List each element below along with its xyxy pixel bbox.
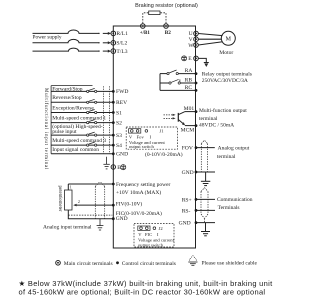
svg-text:E: E bbox=[188, 56, 192, 62]
svg-text:I: I bbox=[157, 232, 159, 237]
terminal U bbox=[194, 31, 199, 36]
svg-text:Braking resistor (optional): Braking resistor (optional) bbox=[135, 3, 198, 9]
svg-text:RS+: RS+ bbox=[182, 197, 192, 203]
svg-text:RB: RB bbox=[185, 78, 193, 84]
ground arrow symbol bbox=[204, 63, 209, 68]
legend control circuit terminal symbol bbox=[116, 261, 119, 264]
communication note bbox=[217, 197, 253, 211]
svg-text:FIV(0-10V): FIV(0-10V) bbox=[116, 201, 143, 208]
wire power line S with breaker bbox=[33, 39, 112, 44]
inverter main box bbox=[113, 26, 195, 248]
svg-text:+10V 10mA (MAX): +10V 10mA (MAX) bbox=[116, 189, 161, 196]
relay contact RB bbox=[160, 79, 196, 84]
wire V to motor bbox=[198, 38, 221, 40]
potentiometer RP bbox=[65, 190, 73, 210]
svg-text:S2: S2 bbox=[116, 120, 122, 126]
terminal RB bbox=[195, 82, 198, 85]
svg-text:Forward/Stop: Forward/Stop bbox=[52, 86, 83, 92]
wire FOV bbox=[196, 147, 215, 149]
svg-text:FOV: FOV bbox=[182, 145, 193, 151]
terminal S/L2 bbox=[111, 41, 116, 46]
svg-text:GND: GND bbox=[116, 152, 128, 158]
terminal S3 bbox=[112, 134, 115, 137]
terminal RS- bbox=[195, 209, 198, 212]
svg-text:terminal: terminal bbox=[199, 116, 218, 122]
terminal RA bbox=[195, 72, 198, 75]
svg-text:Communication: Communication bbox=[217, 197, 253, 203]
shield oval FOV bbox=[201, 140, 207, 171]
svg-text:FWD: FWD bbox=[116, 89, 128, 95]
terminal T/L3 bbox=[111, 49, 116, 54]
svg-text:Input signal common: Input signal common bbox=[52, 147, 99, 153]
pot bottom wire to GND bbox=[68, 210, 112, 219]
multi-function note text bbox=[199, 107, 247, 128]
svg-text:S/L2: S/L2 bbox=[116, 41, 127, 47]
svg-text:terminal: terminal bbox=[217, 154, 236, 160]
svg-text:RC: RC bbox=[185, 85, 193, 91]
label frequency setting power bbox=[116, 182, 171, 196]
svg-text:potentiometer: potentiometer bbox=[57, 186, 62, 212]
wire power line R with breaker bbox=[33, 30, 112, 35]
wire power line T with breaker bbox=[33, 48, 112, 53]
transistor Q1 multi-function output bbox=[178, 112, 196, 126]
legend main circuit terminal symbol bbox=[56, 261, 61, 266]
svg-text:pulse input: pulse input bbox=[52, 129, 77, 135]
input row S1 bbox=[51, 110, 112, 114]
shield dashed pair inputs bbox=[103, 86, 109, 154]
legend shielded cable symbol bbox=[188, 256, 197, 266]
relay contact RA bbox=[160, 70, 196, 75]
svg-text:J2: J2 bbox=[159, 226, 164, 231]
svg-text:B2: B2 bbox=[165, 30, 171, 36]
svg-text:Relay output terminals: Relay output terminals bbox=[202, 71, 252, 77]
terminal S2 bbox=[112, 121, 115, 124]
svg-text:output switch: output switch bbox=[129, 144, 155, 149]
relay note text bbox=[202, 71, 252, 84]
svg-text:REV: REV bbox=[116, 100, 127, 106]
wire W to motor bbox=[198, 42, 222, 45]
terminal REV bbox=[112, 101, 115, 104]
multifunctional input label table bbox=[51, 86, 92, 154]
input row GND bbox=[51, 153, 112, 155]
terminal GND analog bbox=[112, 217, 115, 220]
analog output note bbox=[217, 145, 250, 160]
wire RS+ bbox=[196, 198, 215, 200]
svg-text:J1: J1 bbox=[160, 128, 165, 133]
svg-text:output switch: output switch bbox=[138, 242, 164, 247]
shield dashed pair analog bbox=[95, 182, 104, 219]
svg-text:of 45-160kW are optional; Bui: of 45-160kW are optional; Built-in DC re… bbox=[19, 287, 266, 296]
terminal RC bbox=[195, 89, 198, 92]
input row FWD bbox=[51, 88, 112, 92]
svg-text:S3: S3 bbox=[116, 133, 122, 139]
terminal +10V bbox=[112, 183, 115, 186]
svg-text:I: I bbox=[150, 134, 152, 139]
terminal E left bbox=[111, 165, 115, 169]
svg-text:Frequency setting power: Frequency setting power bbox=[116, 182, 171, 188]
svg-text:250VAC/30VDC/3A: 250VAC/30VDC/3A bbox=[202, 78, 248, 84]
input row S4 bbox=[51, 142, 112, 146]
svg-text:1: 1 bbox=[70, 185, 72, 190]
svg-text:GND: GND bbox=[182, 170, 194, 176]
terminal FIV bbox=[112, 204, 115, 207]
svg-text:T/L3: T/L3 bbox=[116, 49, 127, 55]
terminal M01 bbox=[195, 110, 198, 113]
earth circle symbol left bbox=[121, 165, 126, 170]
svg-text:Fov: Fov bbox=[137, 134, 145, 139]
svg-text:S4: S4 bbox=[116, 143, 122, 149]
relay common vertical wire bbox=[159, 74, 161, 91]
frequency power wire bbox=[68, 184, 112, 190]
svg-text:Multifunctional input terminal: Multifunctional input terminal bbox=[43, 88, 48, 170]
svg-text:Reverse/Stop: Reverse/Stop bbox=[52, 95, 82, 101]
terminal FWD bbox=[112, 90, 115, 93]
svg-text:Motor: Motor bbox=[219, 50, 233, 56]
terminal V bbox=[194, 37, 199, 42]
svg-text:Control circuit terminals: Control circuit terminals bbox=[122, 261, 176, 267]
terminal W bbox=[194, 43, 199, 48]
svg-text:Multi-speed command 3: Multi-speed command 3 bbox=[52, 138, 106, 144]
label optional High-speed pulse input bbox=[52, 123, 102, 135]
svg-text:Power supply: Power supply bbox=[33, 35, 62, 41]
terminal MCM bbox=[195, 124, 198, 127]
J1 jumper box bbox=[126, 127, 177, 149]
svg-text:S1: S1 bbox=[116, 110, 122, 116]
svg-text:Terminals: Terminals bbox=[218, 205, 240, 211]
J2 jumper box bbox=[134, 224, 175, 248]
terminal GND input bbox=[112, 152, 115, 155]
ground hatched mid bbox=[201, 172, 210, 186]
terminal FOV bbox=[195, 146, 198, 149]
terminal S1 bbox=[112, 111, 115, 114]
svg-text:RA: RA bbox=[185, 68, 193, 74]
terminal RS+ bbox=[195, 198, 198, 201]
wire E to ground bbox=[198, 58, 206, 62]
svg-text:Main circuit terminals: Main circuit terminals bbox=[64, 261, 113, 267]
svg-text:RS-: RS- bbox=[182, 208, 191, 214]
svg-text:Multi-function output: Multi-function output bbox=[199, 107, 247, 114]
terminal GND low right bbox=[195, 221, 198, 224]
wire RC bbox=[160, 89, 196, 91]
wire dashed right braking bbox=[160, 13, 166, 24]
svg-text:Analog input terminal: Analog input terminal bbox=[43, 224, 92, 230]
svg-text:V: V bbox=[129, 134, 133, 139]
input row S2 bbox=[51, 120, 112, 124]
svg-text:+/B1: +/B1 bbox=[140, 31, 151, 36]
svg-text:Please use shielded cable: Please use shielded cable bbox=[202, 260, 258, 266]
wire GND mid bbox=[196, 171, 215, 173]
svg-text:Multi-speed command 1: Multi-speed command 1 bbox=[52, 116, 106, 122]
svg-text:Exception/Reverse: Exception/Reverse bbox=[52, 105, 94, 111]
earth circle symbol at E right bbox=[182, 56, 187, 61]
wire GND low right bbox=[196, 222, 215, 224]
wire dashed left braking bbox=[143, 13, 149, 24]
svg-text:MCM: MCM bbox=[181, 128, 195, 134]
svg-text:48VDC / 50mA: 48VDC / 50mA bbox=[199, 123, 234, 129]
svg-text:2: 2 bbox=[78, 199, 80, 204]
svg-text:R/L1: R/L1 bbox=[116, 31, 128, 37]
FIC dashed wire bbox=[68, 214, 112, 216]
wiper wire to FIV bbox=[73, 204, 112, 207]
svg-text:(0-10V/0-20mA): (0-10V/0-20mA) bbox=[145, 151, 183, 158]
wire U to motor bbox=[198, 34, 222, 36]
wire RS- bbox=[196, 209, 215, 211]
motor M bbox=[221, 31, 235, 45]
svg-text:Analog output: Analog output bbox=[218, 145, 250, 151]
ground symbol analog shield bbox=[97, 219, 104, 230]
svg-text:GND: GND bbox=[116, 216, 128, 222]
input row S3 bbox=[51, 132, 112, 136]
terminal E right bbox=[194, 56, 199, 61]
terminal R/L1 bbox=[111, 31, 116, 36]
svg-text:GND: GND bbox=[179, 221, 191, 227]
terminal B2 bbox=[164, 24, 169, 29]
terminal GND mid bbox=[195, 171, 198, 174]
input row REV bbox=[51, 99, 112, 103]
svg-text:M: M bbox=[226, 36, 232, 43]
terminal +/B1 bbox=[141, 24, 146, 29]
svg-text:FIC: FIC bbox=[145, 232, 152, 237]
svg-text:V: V bbox=[138, 232, 142, 237]
braking resistor bbox=[149, 11, 160, 15]
shield oval RS bbox=[201, 188, 208, 223]
optocoupler light arrows bbox=[164, 114, 176, 120]
terminal S4 bbox=[112, 144, 115, 147]
ground symbol input shield bbox=[103, 157, 109, 169]
ground hatched low bbox=[201, 223, 210, 236]
